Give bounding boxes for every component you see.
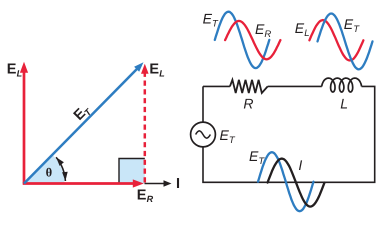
resistor R bbox=[230, 80, 268, 93]
waveform pair 1: E_T (blue) bbox=[215, 12, 269, 68]
svg-text:R: R bbox=[147, 194, 154, 204]
svg-text:L: L bbox=[340, 96, 348, 112]
phasor E_T (blue vector) bbox=[24, 68, 138, 184]
theta angle arc with arrowheads bbox=[56, 157, 65, 181]
right-angle square marker bbox=[119, 159, 145, 184]
svg-text:E: E bbox=[137, 187, 147, 203]
svg-text:R: R bbox=[264, 29, 271, 40]
svg-text:I: I bbox=[176, 176, 180, 192]
waveform pair 3: E_T (blue) bbox=[258, 152, 314, 211]
angle wedge (shaded sector at origin) bbox=[24, 155, 65, 184]
svg-text:T: T bbox=[229, 135, 236, 146]
waveform pair 3: I (black) bbox=[268, 159, 325, 207]
AC source E_T bbox=[191, 122, 216, 147]
vertical axis E_L (red) bbox=[23, 69, 26, 184]
svg-text:E: E bbox=[149, 62, 159, 78]
waveform pair 2: E_T (blue) bbox=[318, 14, 373, 70]
svg-text:L: L bbox=[304, 28, 309, 39]
label E_T rotated on vector bbox=[71, 101, 94, 124]
dashed E_L component line bbox=[144, 71, 147, 183]
horizontal axis E_R (red) bbox=[23, 182, 137, 185]
svg-text:E: E bbox=[7, 62, 17, 78]
svg-text:θ: θ bbox=[46, 165, 53, 179]
waveform pair 1: E_R (red) bbox=[225, 21, 280, 59]
svg-text:T: T bbox=[353, 24, 360, 35]
svg-text:L: L bbox=[159, 69, 165, 79]
circuit loop wires bbox=[203, 86, 375, 182]
inductor L bbox=[322, 78, 362, 92]
svg-text:R: R bbox=[243, 95, 253, 111]
waveform pair 2: E_L (red) bbox=[309, 20, 363, 60]
svg-text:L: L bbox=[17, 69, 23, 79]
current axis I (black arrow) bbox=[145, 183, 166, 185]
svg-text:I: I bbox=[298, 157, 302, 173]
